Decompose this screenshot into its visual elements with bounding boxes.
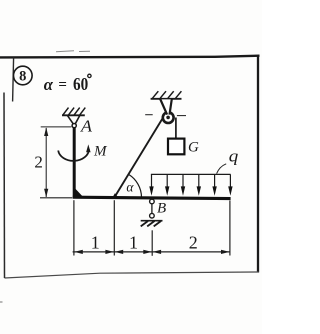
svg-text:B: B <box>157 200 166 216</box>
svg-text:=: = <box>58 77 67 93</box>
svg-text:60: 60 <box>73 74 88 94</box>
svg-text:1: 1 <box>91 233 100 253</box>
svg-text:8: 8 <box>19 69 26 85</box>
svg-text:1: 1 <box>129 233 138 253</box>
svg-text:A: A <box>80 117 93 136</box>
svg-text:M: M <box>93 144 108 160</box>
svg-text:2: 2 <box>34 153 43 172</box>
svg-text:G: G <box>188 139 199 155</box>
svg-text:q: q <box>229 146 239 165</box>
svg-text:α: α <box>44 75 54 94</box>
svg-text:2: 2 <box>189 233 198 253</box>
svg-text:α: α <box>126 179 134 194</box>
